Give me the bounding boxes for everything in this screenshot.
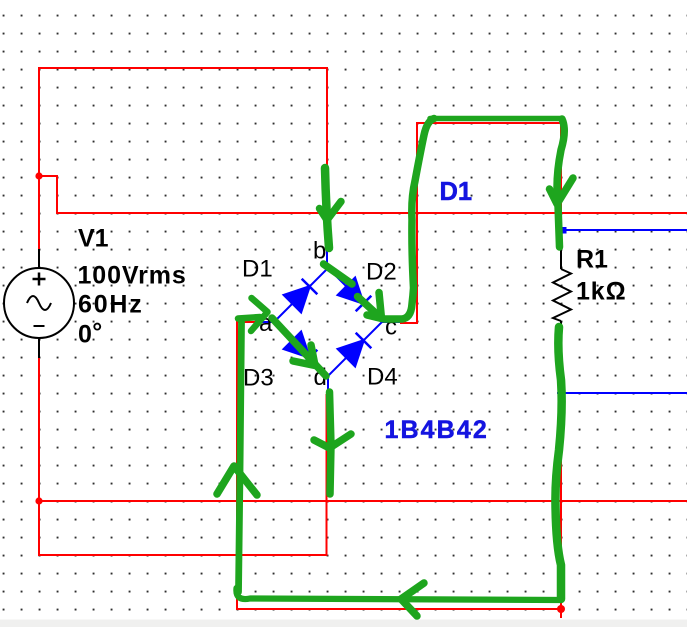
svg-text:D2: D2: [366, 259, 397, 286]
svg-text:D1: D1: [440, 178, 473, 206]
svg-text:60Hz: 60Hz: [78, 291, 144, 319]
svg-text:D4: D4: [367, 364, 398, 391]
svg-text:0: 0: [78, 321, 92, 349]
svg-text:1kΩ: 1kΩ: [576, 278, 627, 306]
svg-text:V1: V1: [78, 225, 109, 253]
svg-text:D3: D3: [243, 365, 274, 392]
svg-text:1B4B42: 1B4B42: [385, 416, 489, 444]
svg-text:100Vrms: 100Vrms: [78, 262, 187, 290]
svg-text:°: °: [92, 318, 102, 346]
svg-text:R1: R1: [576, 246, 608, 274]
svg-text:D1: D1: [242, 256, 273, 283]
